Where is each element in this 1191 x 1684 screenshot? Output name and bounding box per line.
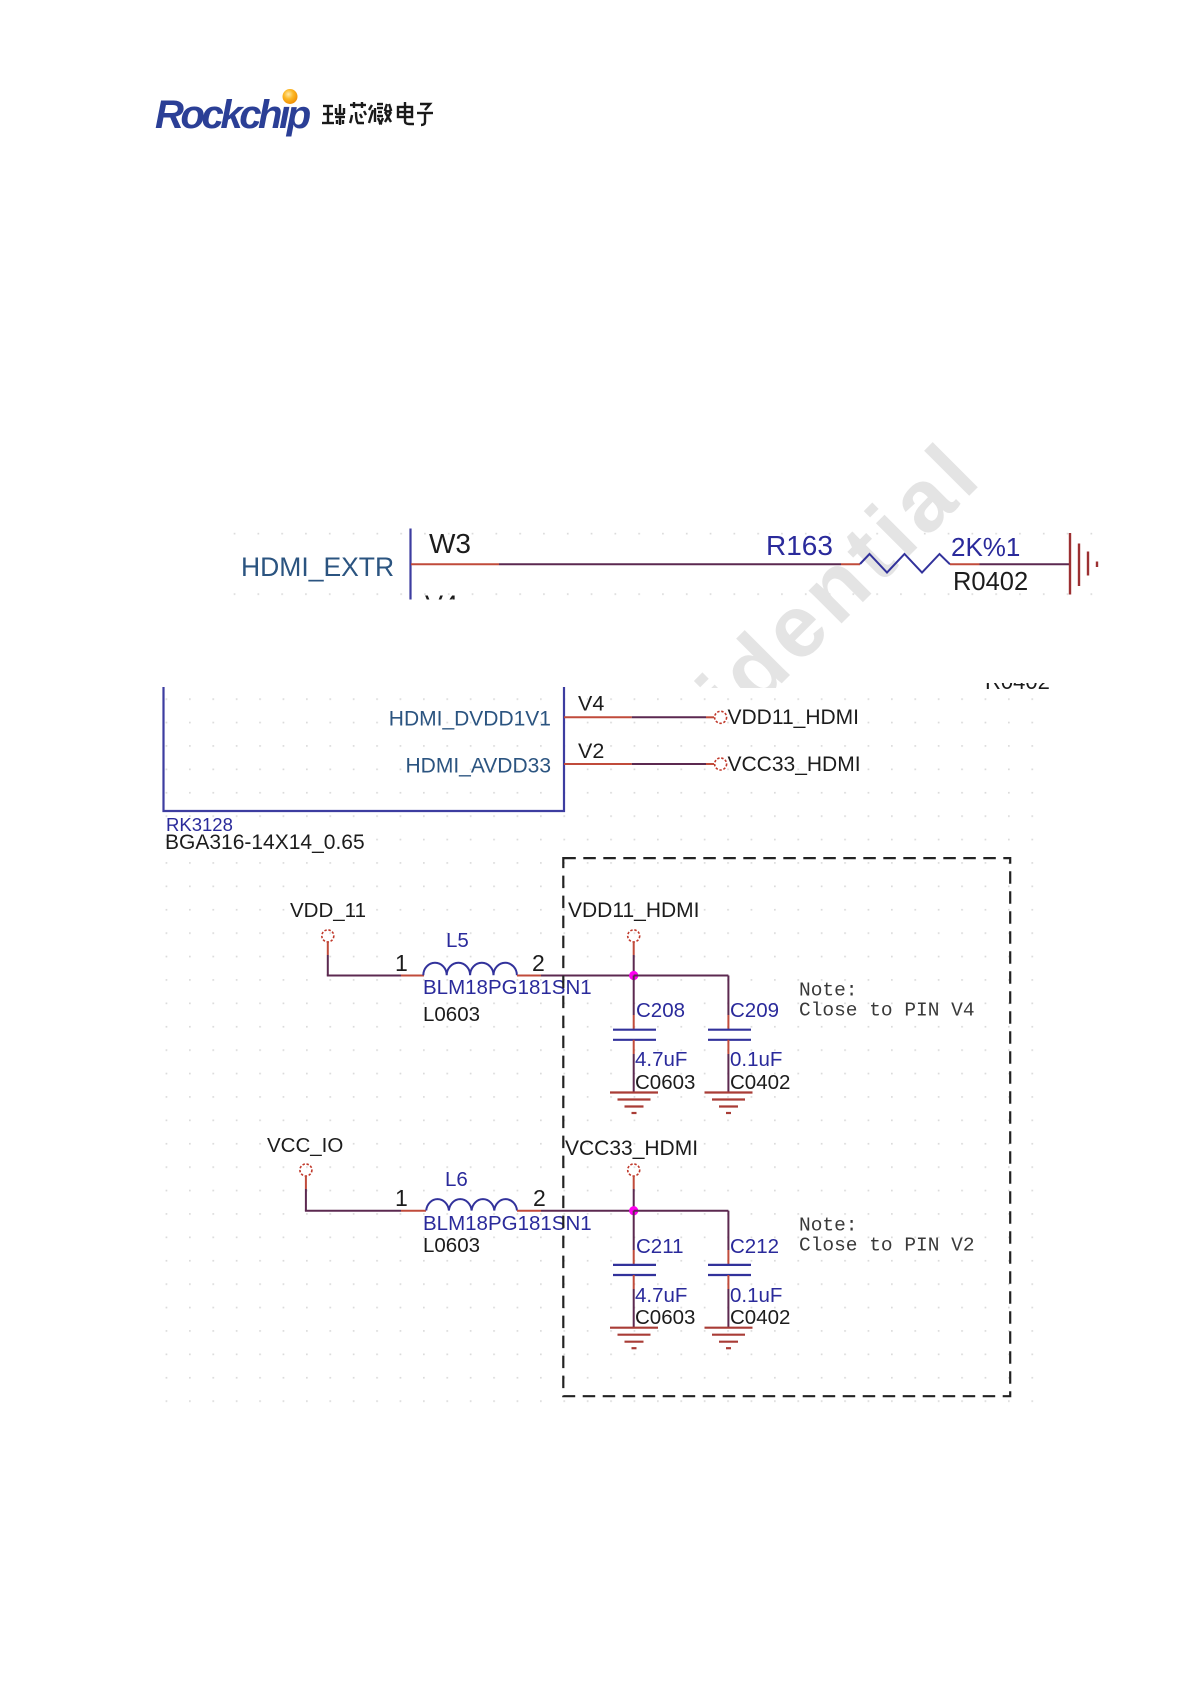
wire VCC_IO horizontal [305,1210,401,1212]
capacitor C211 pin2 lead [633,1275,635,1289]
svg-text:L6: L6 [445,1168,468,1191]
svg-text:0.1uF: 0.1uF [730,1284,782,1307]
wire stub at port VCC33_HDMI [706,763,714,765]
svg-text:R0402: R0402 [953,568,1028,596]
capacitor C212 pin2 lead [727,1275,729,1289]
wire stub below port VDD11_HDMI [633,942,635,955]
junction node VCC33_HDMI [629,1206,638,1215]
子 [417,104,433,125]
svg-text:V4: V4 [425,590,458,620]
svg-text:HDMI_AVDD33: HDMI_AVDD33 [406,755,551,778]
svg-text:C0402: C0402 [730,1306,790,1329]
capacitor C208 pin2 lead [633,1040,635,1054]
resistor R163 body [860,554,950,573]
port circle VCC33_HDMI [715,758,727,770]
wire C208 upper lead [633,976,635,1016]
svg-text:0.1uF: 0.1uF [730,1048,782,1071]
svg-text:VCC33_HDMI: VCC33_HDMI [565,1137,698,1160]
wire VCC_IO vertical [305,1189,307,1211]
pin V4 lead [564,716,632,718]
ground under C212 [705,1328,753,1349]
svg-text:4.7uF: 4.7uF [635,1048,687,1071]
svg-text:2: 2 [533,1185,546,1211]
cutoff text R0402 at snippet2 top [985,669,1050,694]
capacitor C209 plates [708,1030,751,1040]
电 [398,102,414,124]
wire VDD_11 horizontal [327,975,401,977]
svg-text:HDMI_EXTR: HDMI_EXTR [241,552,394,582]
inductor L6 pin 2 lead [517,1210,541,1212]
svg-text:Note:: Note: [799,1215,858,1237]
svg-text:HDMI_DVDD1V1: HDMI_DVDD1V1 [389,708,551,731]
wire stub below port VCC_IO [305,1176,307,1189]
svg-text:2: 2 [532,950,545,976]
svg-text:L5: L5 [446,929,469,952]
svg-text:L0603: L0603 [423,1234,480,1257]
capacitor C212 plates [708,1265,751,1275]
svg-text:VDD_11: VDD_11 [290,899,366,922]
svg-text:BLM18PG181SN1: BLM18PG181SN1 [423,1212,592,1235]
svg-text:C212: C212 [730,1235,779,1258]
capacitor C211 plates [613,1265,656,1275]
svg-text:Close to PIN V4: Close to PIN V4 [799,1000,975,1022]
wire stub at port VDD11_HDMI [706,716,714,718]
pin W3 lead [411,563,499,565]
wire junction to C209 branch [634,975,729,977]
微 [369,104,391,124]
wire L6 to junction [541,1210,634,1212]
capacitor C209 pin2 lead [727,1040,729,1054]
port circle VCC33_HDMI (filter) [628,1164,640,1176]
svg-text:BLM18PG181SN1: BLM18PG181SN1 [423,976,592,999]
inductor L6 pin 1 lead [401,1210,426,1212]
logo orange dot [283,89,298,104]
wire stub below port VDD_11 [327,942,329,955]
capacitor C208 plates [613,1030,656,1040]
svg-text:VDD11_HDMI: VDD11_HDMI [568,899,699,922]
logo [0,0,1191,220]
wire C208 to ground [633,1054,635,1092]
svg-text:2K%1: 2K%1 [951,532,1020,562]
port circle VDD_11 [322,930,334,942]
wire C209 branch vertical [727,976,729,1016]
svg-text:C0603: C0603 [635,1071,695,1094]
chip U1 RK3128 body [164,687,565,811]
wire C211 to ground [633,1289,635,1327]
wire L5 to junction [541,975,634,977]
svg-text:4.7uF: 4.7uF [635,1284,687,1307]
svg-text:R0402: R0402 [985,669,1050,694]
svg-text:1: 1 [395,1185,408,1211]
svg-text:VDD11_HDMI: VDD11_HDMI [728,706,859,729]
svg-text:V2: V2 [578,739,604,763]
wire junction to C212 branch [634,1210,729,1212]
capacitor C212 pin1 lead [727,1250,729,1265]
wire stub below port VCC33_HDMI [633,1176,635,1189]
wire V4 to port [632,716,706,718]
svg-text:VCC_IO: VCC_IO [267,1134,343,1157]
svg-text:Note:: Note: [799,980,858,1002]
svg-text:V4: V4 [578,692,604,716]
svg-text:C209: C209 [730,999,779,1022]
ground under C208 [610,1093,658,1114]
wire C212 branch vertical [727,1211,729,1250]
svg-text:R163: R163 [766,530,833,561]
port circle VDD11_HDMI [715,711,727,723]
svg-text:W3: W3 [429,528,471,559]
capacitor C209 pin1 lead [727,1015,729,1030]
svg-text:1: 1 [395,950,408,976]
svg-text:C0402: C0402 [730,1071,790,1094]
wire C211 upper lead [633,1211,635,1250]
芯 [350,102,366,123]
pin number V4 (clipped at snippet edge) [425,590,458,620]
wire C212 to ground [727,1289,729,1327]
note text V2 [799,1215,975,1257]
wire HDMI_EXTR to R163 [499,563,841,565]
ground (rotated bar ground) [1070,533,1097,595]
svg-text:VCC33_HDMI: VCC33_HDMI [728,753,861,776]
inductor L5 coil [423,963,517,976]
ground under C209 [705,1093,753,1114]
note text V4 [799,980,975,1022]
svg-text:L0603: L0603 [423,1003,480,1026]
wire port to junction 2 [633,1189,635,1211]
logo Chinese characters 瑞芯微电子 [322,102,433,125]
junction node VDD11_HDMI [629,971,638,980]
capacitor C208 pin1 lead [633,1015,635,1030]
dashed layout box [563,858,1010,1396]
port circle VCC_IO [300,1164,312,1176]
resistor R163 left lead [841,563,860,565]
wire R163 to ground [980,563,1070,565]
resistor R163 right lead [950,563,980,565]
svg-text:Close to PIN V2: Close to PIN V2 [799,1235,975,1257]
wire V2 to port [632,763,706,765]
chip edge (RK3128 fragment) [409,529,411,600]
port circle VDD11_HDMI (filter) [628,930,640,942]
ground under C211 [610,1328,658,1349]
inductor L5 pin 1 lead [401,975,424,977]
svg-text:C208: C208 [636,999,685,1022]
inductor L6 coil [426,1199,517,1210]
wire VDD_11 vertical [327,955,329,976]
capacitor C211 pin1 lead [633,1250,635,1265]
svg-text:C211: C211 [636,1235,684,1258]
瑞 [322,104,345,125]
wire C209 to ground [727,1054,729,1092]
svg-text:BGA316-14X14_0.65: BGA316-14X14_0.65 [165,831,365,854]
inductor L5 pin 2 lead [517,975,541,977]
pin V2 lead [564,763,632,765]
wire port to junction [633,955,635,976]
svg-text:C0603: C0603 [635,1306,695,1329]
